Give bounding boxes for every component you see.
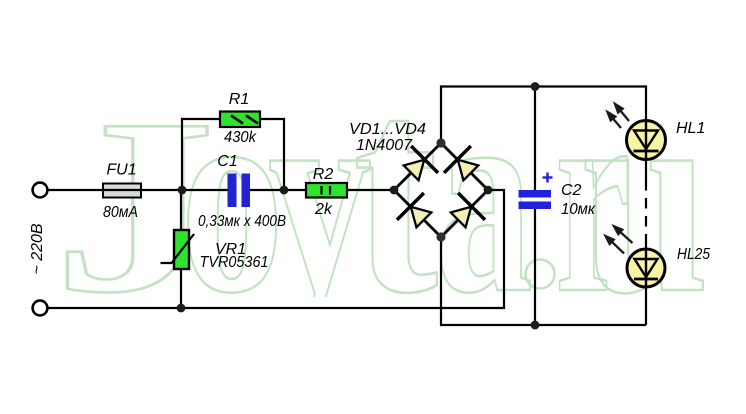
wire: VR1 top lead [180, 190, 182, 230]
node: bridge top corner [436, 138, 445, 147]
node: C2 bottom junction [531, 321, 540, 330]
svg-text:C2: C2 [561, 182, 582, 199]
svg-text:TVR05361: TVR05361 [200, 254, 269, 271]
wire: R1 loop left vertical [182, 119, 220, 190]
wire: bottom input rail [47, 190, 504, 308]
svg-text:C1: C1 [217, 153, 237, 170]
resistor R2 [306, 183, 347, 198]
wire: fuse to C1 left plate [141, 189, 228, 191]
node: bridge bottom corner [436, 232, 445, 241]
resistor R1 [220, 112, 260, 128]
node: C2 top junction [531, 82, 540, 91]
wire: bridge bottom corner to bottom rail [441, 237, 646, 325]
diode VD1 (left-top edge) [398, 146, 438, 186]
wire: C2 bottom lead [534, 209, 536, 325]
terminal bottom input [33, 301, 48, 316]
svg-text:VD1...VD4: VD1...VD4 [349, 121, 426, 138]
svg-text:R1: R1 [229, 91, 249, 108]
capacitor C1 [228, 174, 251, 208]
wire: C2 top lead [534, 87, 536, 191]
bridge VD1..VD4 diamond wires [394, 143, 488, 237]
terminal top input [33, 183, 48, 198]
svg-text:HL25: HL25 [677, 246, 710, 263]
wire: top input terminal to fuse [47, 189, 103, 191]
wire: C1 right plate to R2 [250, 189, 306, 191]
node: VR1 bottom junction [177, 304, 186, 313]
svg-text:2k: 2k [314, 201, 333, 218]
wire: dashed link HL1..HL25 [645, 180, 647, 243]
wire: R2 to bridge left corner [347, 189, 394, 191]
wire: HL1 to HL25 solid stubs [645, 159, 647, 180]
svg-text:10мк: 10мк [561, 201, 596, 218]
wire: VR1 bottom lead [180, 269, 182, 308]
fuse FU1 [103, 184, 141, 198]
svg-text:0,33мк x 400В: 0,33мк x 400В [198, 213, 286, 230]
svg-text:1N4007: 1N4007 [356, 137, 413, 154]
svg-text:FU1: FU1 [106, 162, 136, 179]
node: R1 right junction [280, 186, 289, 195]
LED HL1 [627, 121, 666, 160]
svg-text:R2: R2 [313, 166, 334, 183]
HL1 light arrows [608, 104, 630, 128]
C2 plus sign [543, 173, 553, 183]
capacitor C2 [519, 173, 553, 210]
wire: HL25 bottom lead [645, 286, 647, 325]
HL25 light arrows [606, 226, 633, 253]
diode VD4 (right-bottom edge) [445, 193, 485, 233]
diode VD3 (left-bottom edge) [397, 193, 437, 233]
svg-text:80мА: 80мА [103, 204, 138, 221]
node: R1 left / VR1 top junction [178, 186, 187, 195]
varistor VR1 [161, 230, 195, 269]
LED HL25 [627, 249, 665, 287]
svg-text:430k: 430k [224, 129, 257, 146]
node: bridge left corner [390, 186, 399, 195]
wire: R1 loop right vertical [260, 119, 284, 190]
node: bridge right corner [484, 186, 493, 195]
diode VD2 (right-top edge) [444, 146, 484, 186]
svg-text:HL1: HL1 [676, 120, 705, 137]
svg-text:~ 220В: ~ 220В [29, 223, 46, 274]
wire: bridge top corner to top rail [441, 87, 646, 144]
